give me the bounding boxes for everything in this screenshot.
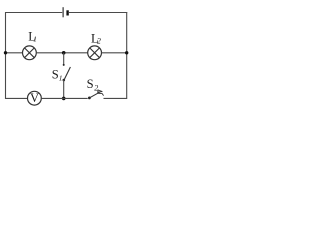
wire top-left segment xyxy=(6,12,63,14)
svg-text:V: V xyxy=(30,91,39,105)
svg-text:1: 1 xyxy=(59,73,63,82)
lamp L1 xyxy=(23,46,37,60)
svg-text:2: 2 xyxy=(97,36,101,45)
switch S2 (open) xyxy=(88,90,104,99)
wire bottom: left corner to voltmeter xyxy=(6,97,28,99)
lamp L2 xyxy=(88,46,102,60)
battery cell short thick plate (-) xyxy=(66,10,68,15)
wire right vertical xyxy=(126,12,128,99)
battery cell long plate (+) xyxy=(62,7,64,17)
voltmeter V xyxy=(28,91,42,105)
svg-text:2: 2 xyxy=(94,84,98,93)
wire bottom: voltmeter to S2 xyxy=(41,97,87,99)
switch S1 (open) xyxy=(63,64,71,81)
node left junction xyxy=(4,51,7,54)
wire middle row: left to lamp L1 xyxy=(6,52,23,54)
node right junction xyxy=(125,51,128,54)
svg-text:1: 1 xyxy=(33,35,37,44)
svg-text:S: S xyxy=(52,67,59,81)
node bottom junction of S1 branch xyxy=(62,97,66,101)
svg-text:S: S xyxy=(87,77,94,91)
wire S1 branch upper stub xyxy=(63,53,65,64)
wire middle row: L1 to L2 xyxy=(36,52,88,54)
node middle junction top of S1 branch xyxy=(62,51,66,55)
wire S1 branch lower stub xyxy=(63,80,65,99)
wire middle row: L2 to right xyxy=(102,52,127,54)
wire bottom: S2 to right corner xyxy=(104,97,127,99)
wire left vertical xyxy=(5,12,7,99)
wire top-right segment xyxy=(69,12,127,14)
